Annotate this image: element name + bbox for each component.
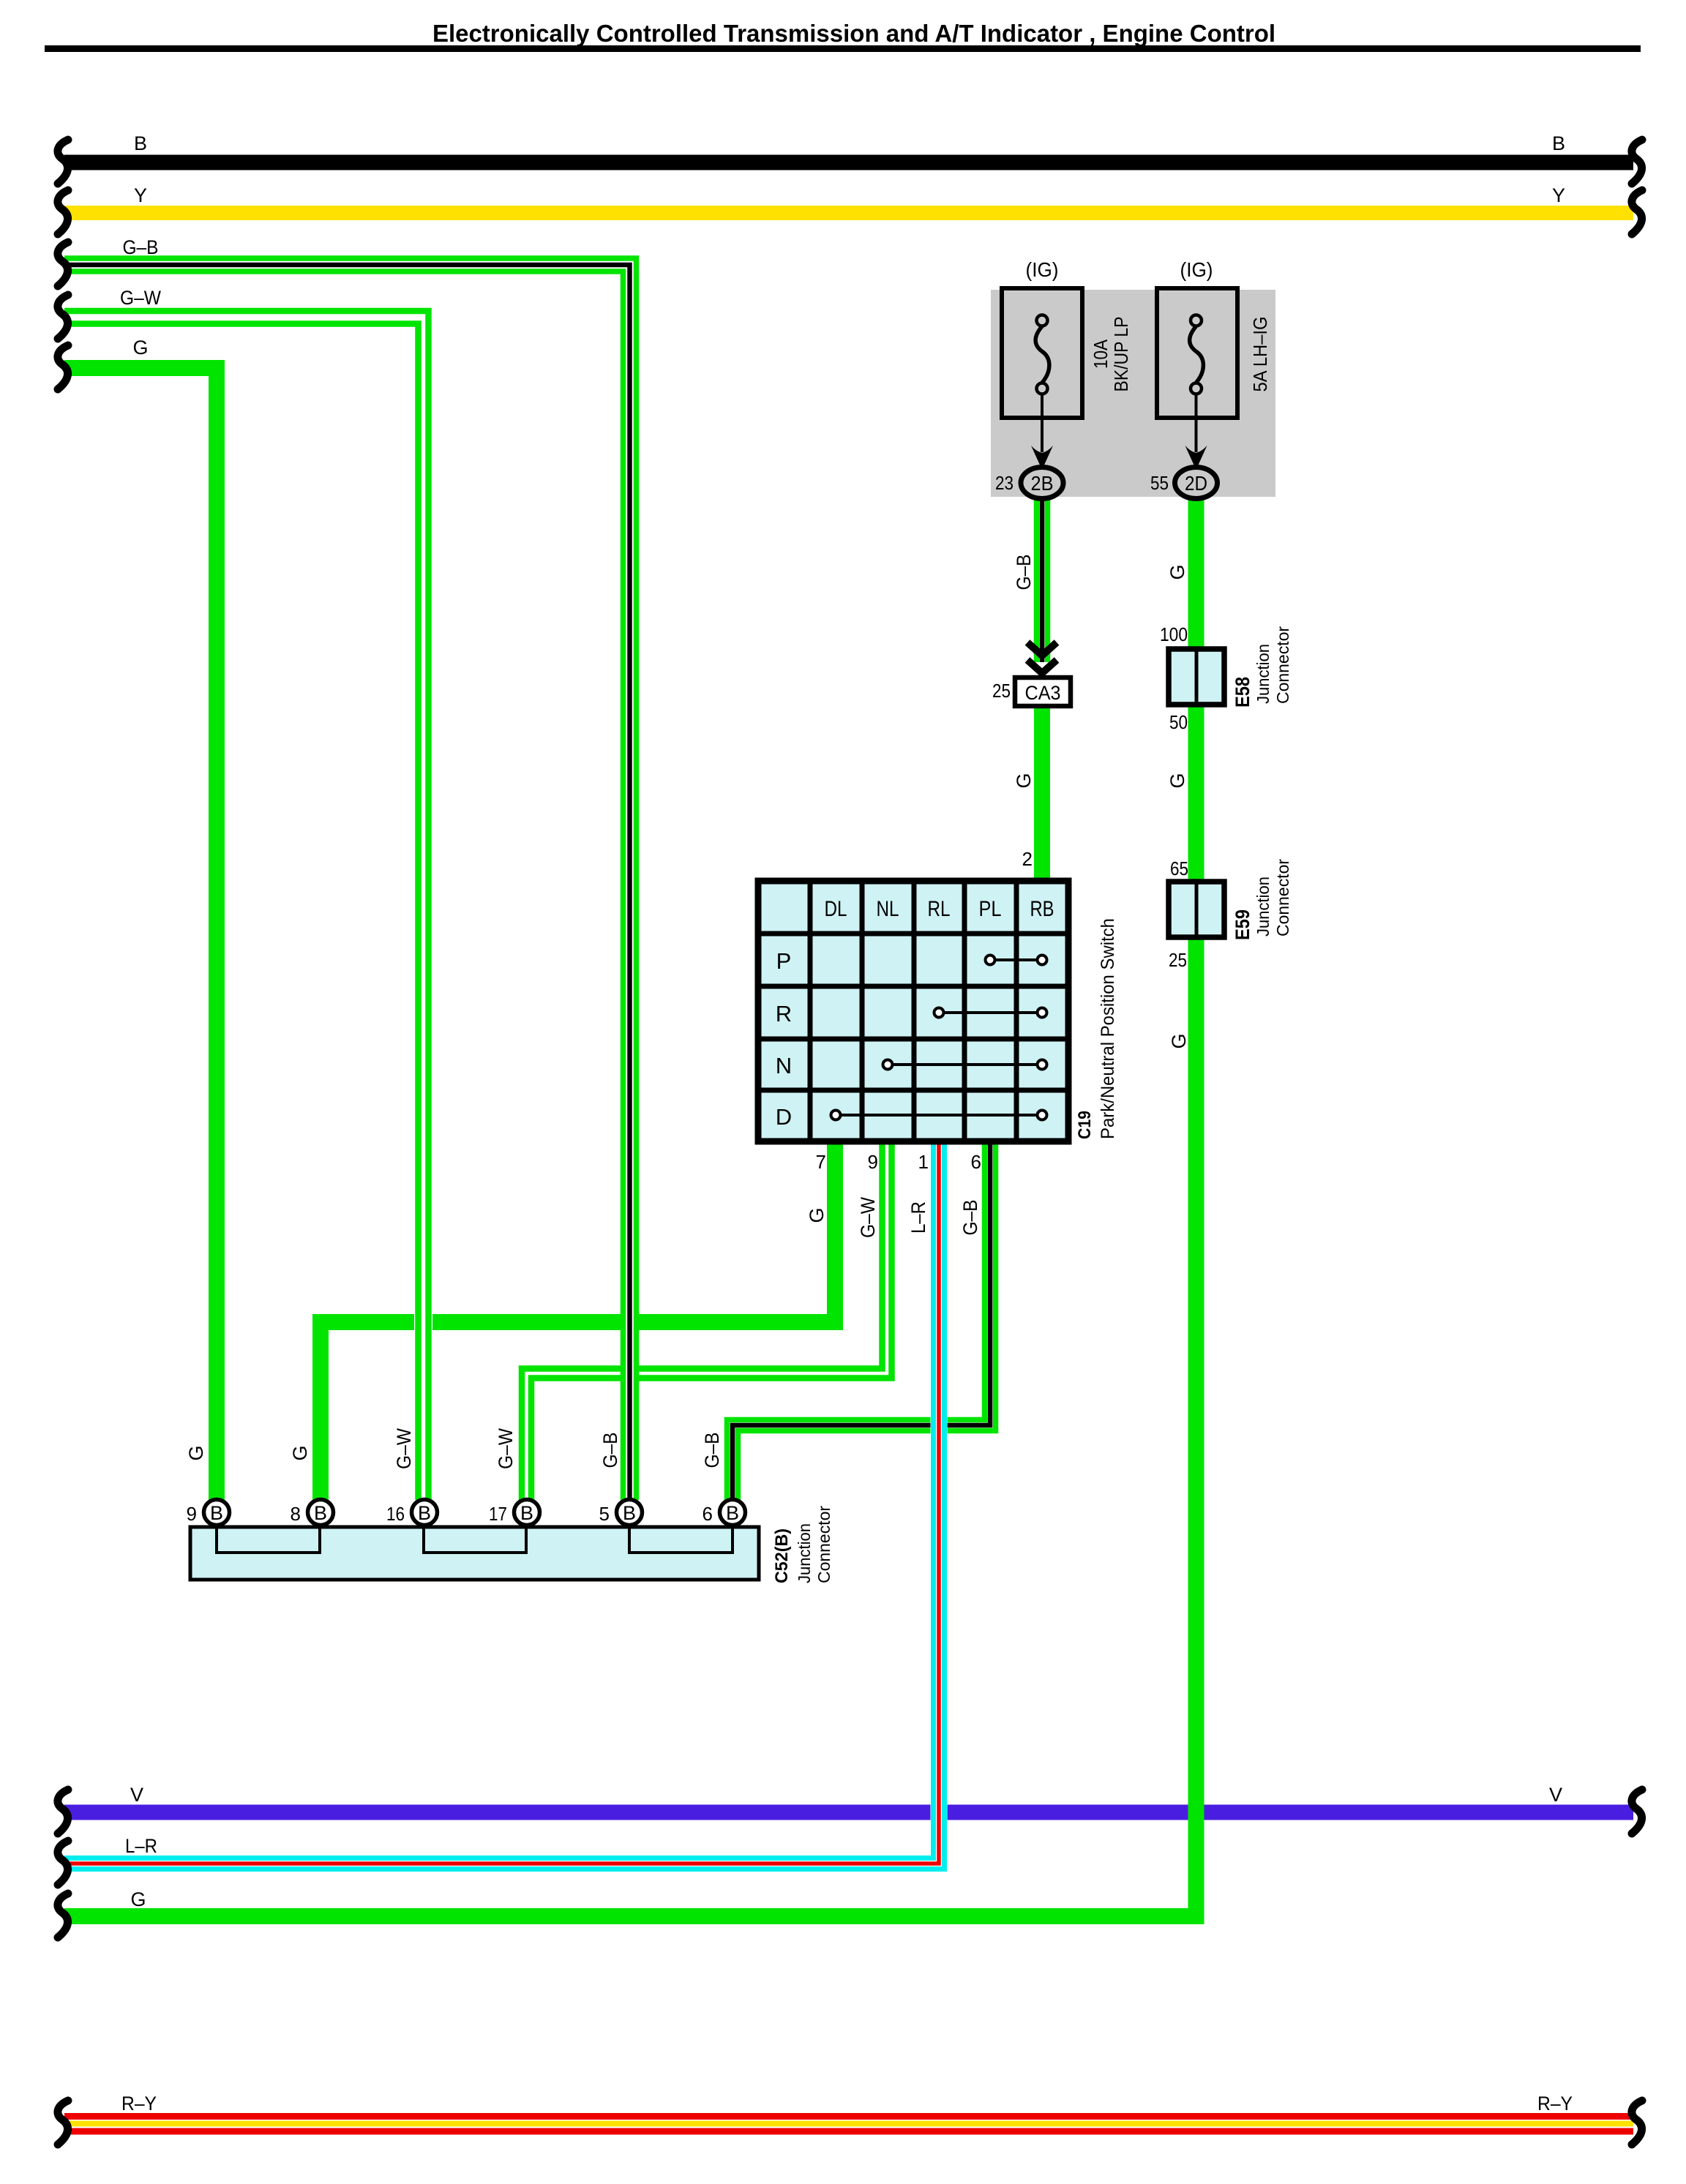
switch contact R: RL-RB [934,1008,1047,1018]
wire label G (C52 pin 8) [289,1445,311,1460]
wire label G (below E59) [1168,1033,1190,1048]
svg-text:PL: PL [979,897,1002,921]
svg-text:P: P [776,948,792,974]
label (IG) fuse 1 [1026,258,1059,281]
svg-text:Junction: Junction [1254,644,1273,704]
svg-text:Park/Neutral Position Switch: Park/Neutral Position Switch [1098,918,1118,1139]
break symbol G left [58,345,68,389]
fuse F2 5A LH-IG [1157,288,1237,470]
wire V bus [64,1805,1633,1820]
svg-text:DL: DL [825,897,847,921]
svg-text:E59: E59 [1232,909,1254,940]
svg-text:5A LH–IG: 5A LH–IG [1249,317,1271,392]
switch pin number 1 [918,1151,929,1173]
switch pin number 9 [868,1151,878,1173]
wire label V (bottom left) [130,1784,143,1806]
svg-text:B: B [314,1502,327,1524]
svg-text:G: G [1168,1033,1190,1048]
wire label G (below CA3) [1013,773,1035,788]
wire G from connector 2D through E58, E59 to G bus [64,498,1196,1916]
wire G from switch pin 7 to C52 pin 8 [321,1138,835,1500]
svg-text:50: 50 [1169,711,1188,733]
svg-text:Y: Y [1552,184,1565,206]
arrow into CA3 [1027,642,1057,673]
switch pin number 7 [816,1151,826,1173]
C52 pin 16 terminal B [412,1500,438,1526]
label 25 (CA3) [992,680,1011,702]
wire label G (between E58 and E59) [1166,773,1188,788]
svg-text:B: B [726,1502,739,1524]
break symbol V right [1632,1790,1642,1834]
svg-text:Junction: Junction [1254,877,1273,937]
connector CA3 (pin 25) [1015,678,1071,706]
wire label Y (top right) [1552,184,1565,206]
svg-text:G: G [185,1445,207,1460]
svg-text:1: 1 [918,1151,929,1173]
title rule [45,45,1641,52]
switch pin number 2 [1022,848,1033,870]
connector 2D (pin 55) [1175,468,1218,499]
svg-text:B: B [1552,132,1565,154]
wire G bus (top left) to C52 pin 9 [64,368,217,1500]
svg-text:NL: NL [877,897,899,921]
svg-text:Y: Y [134,184,147,206]
wire G-B from connector 2B to CA3 [1037,498,1048,662]
svg-text:2D: 2D [1185,472,1207,495]
label 65 [1170,858,1188,879]
svg-text:Electronically Controlled Tran: Electronically Controlled Transmission a… [432,20,1275,47]
svg-text:G: G [132,337,148,359]
svg-text:G: G [289,1445,311,1460]
break symbol L-R left [58,1841,68,1885]
svg-text:G–B: G–B [1013,555,1035,590]
switch row labels [776,948,792,1130]
wire label G (switch pin 7) [806,1207,828,1223]
break symbol G-W left [58,295,68,339]
svg-text:L–R: L–R [125,1835,157,1857]
svg-text:55: 55 [1150,472,1169,494]
svg-text:G: G [130,1888,146,1910]
label 25 (E59) [1169,949,1187,971]
svg-text:25: 25 [1169,949,1187,971]
label E59 Junction Connector [1232,859,1292,940]
wire label G-W (switch pin 9) [857,1197,879,1238]
wire R-Y bus [64,2117,1633,2132]
label E58 Junction Connector [1232,626,1292,708]
svg-text:B: B [134,132,147,154]
label C52(B) Junction Connector [772,1506,833,1583]
C52 pin 17 terminal B [514,1500,540,1526]
svg-text:R–Y: R–Y [121,2093,157,2114]
svg-text:5: 5 [599,1503,610,1525]
wire G-B from switch pin 6 to C52 pin 6 [727,1138,996,1500]
wire label G-B (switch pin 6) [959,1200,981,1236]
svg-text:L–R: L–R [907,1201,929,1234]
fuse block background (gray) [991,290,1275,497]
svg-text:N: N [776,1053,792,1078]
svg-text:C19: C19 [1075,1111,1095,1139]
wire G-W from switch pin 9 to C52 pin 17 [522,1138,892,1500]
svg-text:G–W: G–W [393,1428,415,1469]
break symbol R-Y left [58,2101,68,2144]
svg-text:CA3: CA3 [1025,682,1061,704]
wire label G-B (top left) [123,236,159,258]
svg-text:E58: E58 [1232,677,1254,708]
label 100 [1160,623,1188,645]
svg-text:B: B [520,1502,533,1524]
wire L-R from switch pin 1 to L-R bus [64,1138,945,1869]
switch contact D: DL-RB [831,1111,1047,1120]
wire label Y (top left) [134,184,147,206]
svg-text:C52(B): C52(B) [772,1528,792,1583]
break symbol B left [58,140,68,184]
svg-text:G: G [1166,564,1188,579]
break symbol G bottom left [58,1894,68,1937]
wire label G-B (C52 pin 6) [701,1433,723,1468]
svg-text:(IG): (IG) [1026,258,1059,281]
wire label G-B (2B drop) [1013,555,1035,590]
svg-text:25: 25 [992,680,1011,702]
break symbol Y right [1632,190,1642,234]
break symbol Y left [58,190,68,234]
svg-text:Connector: Connector [814,1506,833,1583]
wire label G-W (C52 pin 16) [393,1428,415,1469]
wire label L-R (bottom left) [125,1835,157,1857]
svg-text:2B: 2B [1031,472,1054,495]
wire Y bus [64,206,1633,220]
svg-text:7: 7 [816,1151,826,1173]
title [432,20,1275,47]
label 10A BK/UP LP [1090,317,1132,392]
svg-text:17: 17 [489,1503,507,1525]
svg-text:R–Y: R–Y [1537,2093,1573,2114]
svg-text:2: 2 [1022,848,1033,870]
svg-text:D: D [776,1104,792,1130]
svg-text:B: B [418,1502,431,1524]
junction connector C52(B) [190,1527,759,1580]
junction connector E59 [1169,882,1224,937]
wire label L-R (switch pin 1) [907,1201,929,1234]
svg-text:G–B: G–B [599,1433,621,1468]
svg-text:R: R [776,1001,792,1027]
svg-text:G–B: G–B [701,1433,723,1468]
wire label V (bottom right) [1549,1784,1562,1806]
wire B bus [64,155,1633,170]
switch pin number 6 [971,1151,981,1173]
C52 pin 9 terminal B [204,1500,230,1526]
svg-text:G–W: G–W [857,1197,879,1238]
wire G-W bus (top left) to C52 pin 16 [64,311,429,1500]
svg-text:V: V [130,1784,143,1806]
C52 pin 8 terminal B [308,1500,334,1526]
wire G from CA3 to switch pin 2 [1034,705,1050,1141]
break symbol G-B left [58,242,68,286]
switch column headers [825,897,1054,921]
fuse F1 10A BK/UP LP [1002,288,1082,470]
svg-text:G–W: G–W [495,1428,517,1469]
svg-text:G–W: G–W [120,287,161,309]
svg-text:100: 100 [1160,623,1188,645]
C52 pin 5 terminal B [617,1500,642,1526]
label (IG) fuse 2 [1180,258,1213,281]
svg-text:G: G [1013,773,1035,788]
svg-text:G: G [1166,773,1188,788]
svg-text:RB: RB [1030,897,1054,921]
C52 pin 6 terminal B [720,1500,746,1526]
svg-text:G–B: G–B [123,236,159,258]
wire label G (C52 pin 9) [185,1445,207,1460]
svg-text:(IG): (IG) [1180,258,1213,281]
label 5A LH-IG [1249,317,1271,392]
C52 pin numbers [187,1503,713,1525]
svg-text:23: 23 [995,472,1014,494]
label 55 [1150,472,1169,494]
wire label R-Y (bottom right) [1537,2093,1573,2114]
park/neutral position switch C19 table [758,881,1068,1141]
label 23 [995,472,1014,494]
switch contact N: NL-RB [883,1060,1047,1070]
svg-text:6: 6 [702,1503,713,1525]
junction connector E58 [1169,649,1224,705]
label C19 Park/Neutral Position Switch [1075,918,1118,1139]
svg-text:8: 8 [291,1503,301,1525]
wire label G-W (top left) [120,287,161,309]
svg-text:B: B [623,1502,636,1524]
svg-text:G–B: G–B [959,1200,981,1236]
svg-text:6: 6 [971,1151,981,1173]
svg-text:10A: 10A [1090,339,1112,369]
wire label G-W (C52 pin 17) [495,1428,517,1469]
break symbol V left [58,1790,68,1834]
wire label B (top right) [1552,132,1565,154]
svg-text:B: B [210,1502,223,1524]
svg-text:Junction: Junction [795,1523,814,1583]
svg-text:Connector: Connector [1273,626,1292,704]
svg-text:65: 65 [1170,858,1188,879]
wire label G (top left) [132,337,148,359]
switch contact P: PL-RB [986,956,1047,965]
wire label R-Y (bottom left) [121,2093,157,2114]
svg-text:9: 9 [868,1151,878,1173]
svg-text:RL: RL [928,897,951,921]
wire label G (bottom left) [130,1888,146,1910]
svg-text:9: 9 [187,1503,197,1525]
svg-text:V: V [1549,1784,1562,1806]
wire G-B bus (top left) to C52 pin 5 [64,258,637,1500]
svg-text:BK/UP LP: BK/UP LP [1110,317,1132,392]
wire label B (top left) [134,132,147,154]
label 50 [1169,711,1188,733]
svg-text:G: G [806,1207,828,1223]
svg-text:Connector: Connector [1273,859,1292,937]
break symbol B right [1632,140,1642,184]
svg-text:16: 16 [386,1503,405,1525]
wire label G-B (C52 pin 5) [599,1433,621,1468]
connector 2B (pin 23) [1021,468,1063,499]
wire label G (2D drop above E58) [1166,564,1188,579]
break symbol R-Y right [1632,2101,1642,2144]
